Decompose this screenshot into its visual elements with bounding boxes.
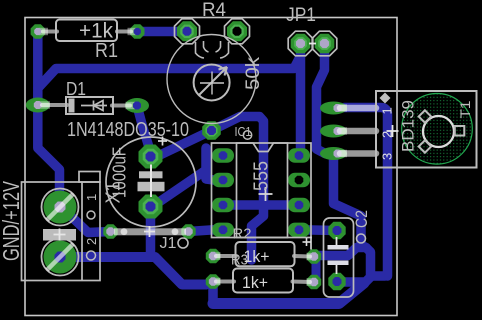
svg-text:2: 2 [380,131,395,138]
pad D1 left [26,98,50,113]
wire JP1 pad1 to IC1 pin R1 [296,50,306,152]
capacitor C2 outline [324,218,354,297]
J1 plus cross [144,226,155,237]
J1 lead blob left [121,228,128,235]
lead glare D1R [126,102,137,109]
wire X1 screw2 to R3 left pad [61,257,213,285]
transistor T1 BD139 package outline [376,91,477,168]
wire link to BD139 vertical [371,271,386,281]
svg-text:3: 3 [380,153,395,160]
wire R4 wiper to IC1 notch [212,117,264,205]
pad IC1 L1 [212,148,234,163]
X1 screw ring 1 [42,189,79,226]
pad C2 top [328,222,345,239]
potentiometer R4 big circle [167,35,256,124]
lead glare BD1 [336,104,347,111]
lead glare R1R [128,28,137,35]
pad JP1 2 [315,34,335,54]
BD139 diamond pad lower [419,140,431,152]
wire D1R to C1 top pad [137,106,151,153]
capacitor C2 plate 1 [328,245,349,250]
wire BD139 pad3 to C2 area [334,156,367,248]
wire R4 wiper to C1 top pad [151,131,212,157]
hole R4 wiper [207,126,216,135]
potentiometer R4 origin cross [200,72,224,95]
C2 marker circle [357,234,366,243]
pad R4 left [177,21,197,41]
pad R4 wiper [202,121,221,140]
lead BD139 3 [340,150,376,157]
X1 tab box [79,172,100,183]
hole J1R [184,227,192,235]
X1 terminal outline [22,182,101,281]
wire bottom ground band [213,283,364,304]
board outline dimension [25,18,397,316]
BD139 square pad right [455,126,465,136]
X1 plus cross [54,229,66,241]
potentiometer R4 adjust arrow [199,67,227,95]
lead glare BD2 [336,127,347,134]
wire J1 right pad to IC1 pin L4 [189,230,224,232]
J1 lead blob right [172,228,179,235]
hole IC1 R1 [295,151,304,160]
lead D1 left [42,103,67,107]
resistor R3 body [233,269,293,293]
lead glare R2R [307,253,314,260]
wire R1R to R4 left pad [137,27,187,37]
pad IC1 L3 [212,198,234,213]
svg-text:GND/+12V: GND/+12V [0,181,24,261]
lead BD139 1 [340,105,376,112]
svg-text:IC1: IC1 [235,124,252,139]
wire branch to C1 bottom pad [153,148,207,207]
X1 screw slash 2 [47,244,73,270]
X1 screw pad 2 [44,241,77,274]
wire R3L down [208,282,218,304]
pad BD139 1 [320,102,347,115]
pad IC1 R1 [288,148,310,163]
svg-text:R2: R2 [233,226,252,243]
svg-text:1N4148DO35-10: 1N4148DO35-10 [67,119,189,141]
pad BD139 2 [320,125,347,138]
pad IC1 R2 [288,173,310,188]
X1 screw ring 2 [42,239,79,276]
pad JP1 1 [291,34,311,54]
hole R1R [134,28,141,35]
lead R2 right [294,254,310,259]
lead BD139 2 [340,128,376,135]
IC1 origin cross [259,187,273,201]
capacitor C2 plate 2 [328,261,349,266]
svg-text:1: 1 [84,194,99,201]
J1 marker circle [178,238,188,248]
svg-text:555: 555 [251,161,273,191]
capacitor C1 circle [106,137,196,227]
pad R2 left [206,249,220,263]
lead R2 left [216,254,236,258]
hole R3L [209,277,217,285]
wire JP1 pad2 to BD139 pad3 [317,50,326,154]
pad R3 right [307,275,321,289]
hole R2R [310,252,318,260]
X1 pin1 marker circle [87,211,95,219]
diode D1 body [66,97,113,114]
pad R3 left [206,274,220,288]
capacitor C1 lead line [150,165,152,198]
svg-text:T1: T1 [457,100,473,118]
pad J1 left [103,224,117,238]
wire notch elbow down stub [252,205,264,261]
hole R4R [233,27,242,36]
hole IC1 R3 [295,201,304,210]
hole BD139 p3 [334,150,342,158]
svg-text:JP1: JP1 [286,5,316,26]
pad R1 left [31,24,45,38]
pad J1 right [181,224,195,238]
diode D1 symbol [81,101,107,111]
hole C1 top [146,152,156,162]
hole IC1 R2 [295,176,304,185]
lead glare R3R [307,278,314,285]
hole R1L [34,28,41,35]
lead R1 left [43,30,57,34]
svg-text:2: 2 [84,238,99,245]
pad IC1 L2 [212,173,234,188]
svg-text:R1: R1 [95,40,118,62]
hole R3R [310,278,318,286]
capacitor C1 plus mark [158,137,167,146]
wire R2R to R3R vertical [312,257,321,282]
lead glare R3L [214,278,221,285]
potentiometer R4 inner circle [194,65,230,101]
capacitor C2 plus mark [303,237,312,250]
IC1 marker circle [243,131,251,139]
lead glare R2L [214,252,221,259]
X1 inner divider line [81,182,83,281]
JP1 tick between pads [309,43,316,45]
lead R3 right [293,280,311,285]
BD139 diamond pad upper [419,110,431,122]
svg-text:D1: D1 [66,79,86,99]
svg-text:X1: X1 [103,182,125,204]
JP1 outline pad1 [288,31,313,56]
svg-text:50k: 50k [243,56,264,90]
wire X1 screw1 to J1 left pad [62,207,111,233]
BD139 metal circle [423,116,454,147]
wire BD139 pad1 long vertical [344,108,388,277]
diode D1 cathode band [69,99,75,113]
hole X1 screw2 [55,252,66,263]
lead glare D1L [39,101,50,108]
hole JP1a [296,39,305,48]
potentiometer R4 pad wing left [175,19,200,44]
wire IC1 R4 to C2 top pad [300,225,337,235]
pad C2 bottom [328,273,345,290]
pad R1 right [130,24,144,38]
hole IC1 L1 [219,151,228,160]
hole BD139 p1 [334,104,342,112]
IC1 body with notch [237,143,288,238]
pad IC1 R3 [288,198,310,213]
hole C2 top [333,226,342,235]
svg-text:J1: J1 [160,235,177,252]
lead D1 right [112,104,130,108]
pad BD139 3 [320,147,347,160]
X1 screw slash 1 [47,194,73,220]
lead R3 left [216,280,234,284]
pad R4 right [227,21,247,41]
svg-text:1k+: 1k+ [244,247,270,266]
hole BD139 p2 [334,127,342,135]
hole X1 screw1 [55,202,66,213]
svg-text:1: 1 [380,107,395,114]
hole IC1 L4 [219,226,228,235]
BD139 corner diamond [380,93,391,104]
wire IC1 L3 to R3 under body [223,200,300,210]
lead R1 right [117,30,131,34]
hole IC1 R4 [295,226,304,235]
svg-text:BD139: BD139 [399,100,418,152]
pad C1 plus top [139,145,163,169]
BD139 origin cross [387,125,399,137]
wire R1L to D1L [33,32,43,105]
svg-text:1k+: 1k+ [242,273,268,292]
JP1 outline pad2 [312,31,337,56]
wire horizontal bus to JP1 pad1 [38,56,301,88]
hole C2 bottom [333,277,342,286]
resistor R1 body [56,20,117,42]
svg-text:C2: C2 [352,210,371,228]
X1 divider block [43,229,76,241]
hole JP1b [320,39,329,48]
wire R2R to C2 bottom [315,248,371,283]
J1 jumper bar [114,228,186,235]
pad IC1 L4 [212,223,234,238]
X1 pin2 marker circle [87,251,96,260]
hole R4L [183,27,192,36]
pad IC1 R4 [288,223,310,238]
hole R2L [209,252,217,260]
BD139 polygon dotted circle [402,94,473,165]
wire stub to IC1 pin L2 [206,170,214,180]
X1 screw pad 1 [44,191,77,224]
lead glare R1L [39,28,48,35]
hole D1R [133,102,141,110]
pad D1 right [125,98,149,113]
pad C1 minus bottom [139,195,163,219]
IC1 outer outline [212,143,312,238]
wire D1L to X1 screw1 [38,105,60,206]
hole IC1 L3 [219,201,228,210]
svg-text:R4: R4 [202,0,226,21]
capacitor C2 lead lines [336,237,338,274]
hole C1 bottom [146,202,156,212]
lead glare BD3 [336,150,347,157]
capacitor C1 bar 1 [139,171,163,178]
wire C1 bottom pad down [146,207,156,258]
pad R2 right [307,249,321,263]
hole J1L [106,227,114,235]
hole D1L [34,101,42,109]
capacitor C1 bar 2 [138,182,165,192]
hole IC1 L2 [219,176,228,185]
potentiometer R4 pad wing right [225,19,250,44]
resistor R2 body [236,242,295,266]
